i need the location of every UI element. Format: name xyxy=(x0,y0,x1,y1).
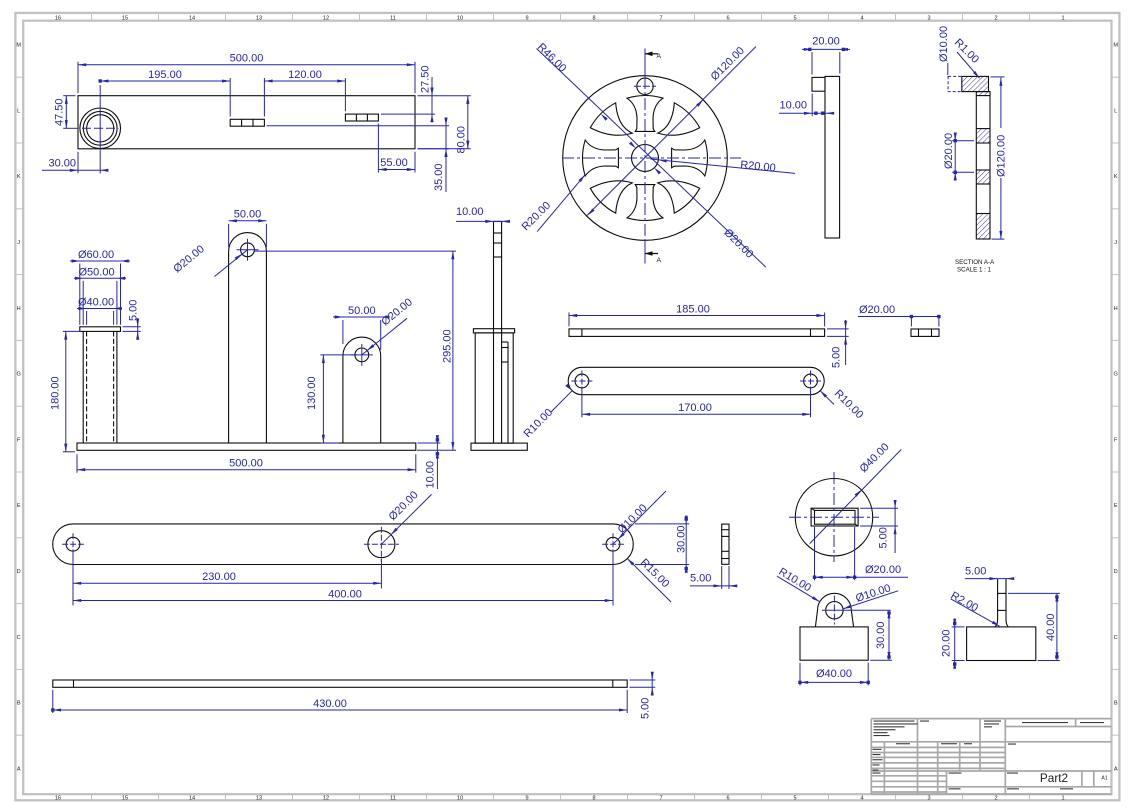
svg-text:Ø40.00: Ø40.00 xyxy=(78,297,114,309)
svg-text:180.00: 180.00 xyxy=(50,376,62,410)
svg-text:170.00: 170.00 xyxy=(678,402,712,414)
svg-text:55.00: 55.00 xyxy=(380,157,408,169)
svg-text:1: 1 xyxy=(1061,796,1064,802)
svg-text:L: L xyxy=(17,108,20,114)
svg-text:SCALE 1 : 1: SCALE 1 : 1 xyxy=(957,267,992,274)
svg-text:10.00: 10.00 xyxy=(425,461,437,489)
svg-text:195.00: 195.00 xyxy=(148,69,182,81)
svg-text:11: 11 xyxy=(390,15,396,21)
svg-text:230.00: 230.00 xyxy=(202,571,236,583)
svg-text:30.00: 30.00 xyxy=(676,525,688,553)
svg-text:12: 12 xyxy=(323,796,329,802)
svg-text:K: K xyxy=(17,174,21,180)
svg-text:A: A xyxy=(657,257,662,264)
svg-text:G: G xyxy=(17,372,21,378)
svg-text:J: J xyxy=(17,240,20,246)
svg-text:7: 7 xyxy=(659,15,662,21)
svg-text:Ø20.00: Ø20.00 xyxy=(865,564,901,576)
svg-text:27.50: 27.50 xyxy=(420,65,432,93)
svg-text:M: M xyxy=(16,43,21,49)
svg-text:10.00: 10.00 xyxy=(456,206,484,218)
svg-text:5.00: 5.00 xyxy=(878,527,890,548)
svg-text:20.00: 20.00 xyxy=(941,629,953,657)
svg-text:Ø10.00: Ø10.00 xyxy=(938,26,950,62)
svg-text:6: 6 xyxy=(726,796,729,802)
svg-text:20.00: 20.00 xyxy=(812,36,840,48)
svg-text:2: 2 xyxy=(994,15,997,21)
svg-text:A1: A1 xyxy=(1101,776,1107,782)
svg-text:35.00: 35.00 xyxy=(433,163,445,191)
svg-text:12: 12 xyxy=(323,15,329,21)
svg-text:7: 7 xyxy=(659,796,662,802)
svg-text:Ø40.00: Ø40.00 xyxy=(816,668,852,680)
svg-text:8: 8 xyxy=(592,796,595,802)
svg-text:3: 3 xyxy=(927,15,930,21)
svg-text:E: E xyxy=(17,503,21,509)
svg-text:A: A xyxy=(657,53,662,60)
svg-text:F: F xyxy=(1114,437,1118,443)
svg-text:G: G xyxy=(1114,372,1118,378)
svg-text:1: 1 xyxy=(1061,15,1064,21)
svg-text:5.00: 5.00 xyxy=(640,698,652,719)
svg-text:30.00: 30.00 xyxy=(48,158,76,170)
svg-text:9: 9 xyxy=(525,796,528,802)
svg-text:F: F xyxy=(17,437,21,443)
svg-text:120.00: 120.00 xyxy=(288,69,322,81)
svg-text:295.00: 295.00 xyxy=(442,329,454,363)
svg-text:H: H xyxy=(17,306,21,312)
svg-text:M: M xyxy=(1113,43,1118,49)
svg-text:16: 16 xyxy=(55,796,61,802)
svg-text:5: 5 xyxy=(793,796,796,802)
svg-text:C: C xyxy=(1114,635,1118,641)
svg-text:A: A xyxy=(17,766,21,772)
svg-text:C: C xyxy=(17,635,21,641)
svg-text:Ø20.00: Ø20.00 xyxy=(943,133,955,169)
svg-text:185.00: 185.00 xyxy=(676,303,710,315)
svg-text:D: D xyxy=(17,569,21,575)
svg-text:47.50: 47.50 xyxy=(54,98,66,126)
svg-text:3: 3 xyxy=(927,796,930,802)
svg-text:4: 4 xyxy=(860,796,863,802)
svg-text:5.00: 5.00 xyxy=(127,300,139,321)
svg-text:Ø50.00: Ø50.00 xyxy=(79,267,115,279)
svg-text:J: J xyxy=(1114,240,1117,246)
svg-text:A: A xyxy=(1114,766,1118,772)
svg-text:5.00: 5.00 xyxy=(690,573,711,585)
svg-text:430.00: 430.00 xyxy=(313,698,347,710)
svg-text:11: 11 xyxy=(390,796,396,802)
svg-text:Ø20.00: Ø20.00 xyxy=(859,304,895,316)
svg-text:E: E xyxy=(1114,503,1118,509)
svg-text:13: 13 xyxy=(256,796,262,802)
svg-text:16: 16 xyxy=(55,15,61,21)
svg-text:400.00: 400.00 xyxy=(328,588,362,600)
svg-text:40.00: 40.00 xyxy=(1045,613,1057,641)
svg-text:6: 6 xyxy=(726,15,729,21)
svg-text:5: 5 xyxy=(793,15,796,21)
svg-text:Ø120.00: Ø120.00 xyxy=(995,135,1007,177)
svg-text:K: K xyxy=(1114,174,1118,180)
svg-text:5.00: 5.00 xyxy=(965,566,986,578)
svg-text:Part2: Part2 xyxy=(1040,771,1068,785)
svg-text:14: 14 xyxy=(189,796,195,802)
svg-text:15: 15 xyxy=(122,796,128,802)
svg-text:5.00: 5.00 xyxy=(831,347,843,368)
svg-text:4: 4 xyxy=(860,15,863,21)
svg-text:14: 14 xyxy=(189,15,195,21)
svg-text:50.00: 50.00 xyxy=(234,209,262,221)
svg-text:13: 13 xyxy=(256,15,262,21)
svg-text:10: 10 xyxy=(457,796,463,802)
svg-text:130.00: 130.00 xyxy=(306,376,318,410)
svg-text:500.00: 500.00 xyxy=(229,458,263,470)
svg-text:Ø60.00: Ø60.00 xyxy=(78,249,114,261)
svg-text:500.00: 500.00 xyxy=(230,53,264,65)
svg-text:D: D xyxy=(1114,569,1118,575)
svg-text:50.00: 50.00 xyxy=(348,305,376,317)
svg-text:80.00: 80.00 xyxy=(455,126,467,154)
svg-text:8: 8 xyxy=(592,15,595,21)
svg-text:L: L xyxy=(1114,108,1117,114)
svg-text:30.00: 30.00 xyxy=(875,621,887,649)
svg-text:H: H xyxy=(1114,306,1118,312)
svg-text:15: 15 xyxy=(122,15,128,21)
svg-text:9: 9 xyxy=(525,15,528,21)
svg-text:2: 2 xyxy=(994,796,997,802)
svg-text:SECTION A-A: SECTION A-A xyxy=(955,259,995,266)
svg-text:10: 10 xyxy=(457,15,463,21)
svg-text:B: B xyxy=(1114,701,1118,707)
svg-text:B: B xyxy=(17,701,21,707)
svg-text:10.00: 10.00 xyxy=(780,100,808,112)
